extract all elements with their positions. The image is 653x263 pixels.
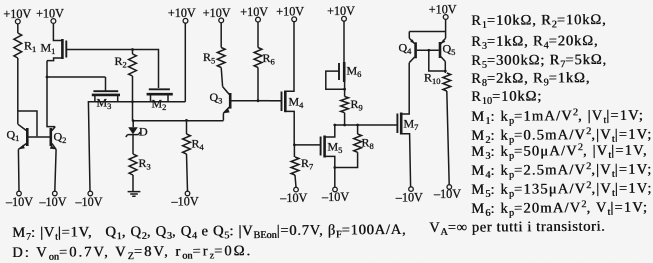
supply +10V terminal 4 (219, 18, 224, 23)
transistor Q5 (pnp, diode-connected, mirrored) (439, 42, 442, 58)
supply +10V terminal 3 (183, 18, 188, 23)
wire R1 to Q1 collector (17, 58, 19, 124)
resistor R1 (14, 33, 22, 58)
node Q4/Q5 base tie (427, 49, 430, 52)
wire +10V to M1 drain (53, 24, 62, 41)
supply -10V terminal 8 (447, 185, 452, 190)
wire Q3 emitter down (222, 113, 224, 120)
svg-text:–10V: –10V (5, 195, 33, 209)
wire R9 leads (344, 82, 346, 125)
supply +10V terminal 1 (15, 19, 20, 24)
wire M1 gate to R2 top and M2 gate (66, 50, 158, 89)
supply -10V terminal 4 (185, 191, 190, 196)
wire R7 top (293, 145, 295, 157)
wire R8 top lead (357, 125, 359, 134)
supply -10V terminal 2 (53, 191, 58, 196)
wire Q5 emitter stub (445, 32, 447, 39)
node R2 top (131, 48, 134, 51)
resistor R10 (443, 73, 451, 91)
resistor R9 (341, 97, 349, 113)
wire R4 top lead (186, 120, 188, 134)
wire Q5 collector (444, 62, 446, 74)
resistor R8 (354, 134, 362, 152)
wire +10V to M6 drain (343, 21, 345, 62)
supply -10V terminal 5 (294, 187, 299, 192)
wire Q4 emitter stub (408, 32, 410, 39)
supply -10V terminal 3 (88, 191, 93, 196)
resistor R6 (254, 48, 262, 68)
wire Q5 base-collector loop (429, 50, 446, 71)
diode D (zener) (132, 121, 134, 127)
svg-text:–10V: –10V (171, 195, 199, 209)
wire R6 bottom (257, 68, 259, 101)
wire M4 source to M5 gate (294, 144, 320, 146)
wire Q4/Q5 base link (417, 49, 439, 51)
node R6 / base wire (257, 99, 260, 102)
transistor M6 (mosfet, diode-connected) (343, 62, 346, 82)
svg-text:+10V: +10V (327, 4, 355, 18)
node M4 source / R7 / M5 gate (293, 144, 296, 147)
supply +10V terminal 2 (51, 19, 56, 24)
ground (arrow style) under R3 (128, 192, 141, 197)
resistor R5 (217, 48, 225, 68)
wire M3 source to -10V (88, 102, 95, 192)
supply +10V terminal 8 (443, 15, 448, 20)
svg-text:+10V: +10V (240, 5, 268, 19)
node M3 gate tap (46, 76, 49, 79)
wire Q1 emitter to -10V (17, 149, 20, 191)
transistor M2 (mosfet, horizontal, gate up) (149, 88, 170, 90)
wire R2 bottom (132, 76, 134, 121)
transistor M5 (mosfet, gate left) (320, 137, 322, 156)
node R8 top (356, 124, 359, 127)
transistor M7 (mosfet, gate left) (396, 114, 398, 134)
wire M1 source to M3 gate (47, 76, 106, 78)
wire +10V to R6 (257, 22, 259, 47)
transistor Q2 (npn) (49, 128, 52, 146)
node M5 source (333, 166, 336, 169)
wire R4 to -10V (187, 154, 188, 191)
wire M5 source bus to R8 bottom (335, 152, 358, 167)
svg-text:–10V: –10V (433, 187, 461, 201)
wire R2 top lead (132, 50, 134, 55)
supply +10V terminal 7 (342, 16, 347, 21)
wire Q1 collector-base loop (18, 111, 37, 136)
wire source bus (M3/R2/M2) (95, 101, 185, 103)
resistor R3 (129, 154, 137, 175)
node R9 bottom (343, 124, 346, 127)
wire R10 to -10V (447, 91, 449, 185)
svg-text:–10V: –10V (38, 195, 66, 209)
resistor R4 (183, 134, 191, 154)
wire M5 source to -10V (334, 168, 336, 188)
transistor M1 (mosfet, mirrored: gate right) (61, 39, 64, 59)
node R4 top (185, 119, 188, 122)
transistor Q1 (npn, diode-connected) (26, 128, 29, 146)
supply -10V terminal 1 (17, 191, 22, 196)
svg-text:+10V: +10V (36, 6, 64, 20)
wire R7 to -10V (295, 175, 296, 187)
wire mid bus to M7 gate (335, 124, 397, 126)
resistor R2 (129, 54, 137, 76)
svg-text:–10V: –10V (395, 191, 423, 205)
transistor Q4 (pnp) (414, 42, 417, 58)
wire Q1-Q2 base link (28, 136, 49, 138)
resistor R7 (291, 157, 299, 175)
supply -10V terminal 6 (333, 187, 338, 192)
wire R5 to Q3 collector (221, 68, 222, 87)
wire +10V to top-right rail (409, 19, 445, 31)
supply +10V terminal 6 (292, 17, 297, 22)
svg-text:D: D (139, 125, 148, 139)
transistor M3 (mosfet, horizontal, gate up) (93, 90, 118, 92)
wire Q2 emitter to -10V (55, 149, 56, 191)
transistor Q3 (npn, mirrored) (229, 93, 232, 109)
svg-text:+10V: +10V (276, 5, 304, 19)
svg-text:+10V: +10V (168, 6, 196, 20)
svg-text:+10V: +10V (429, 2, 457, 16)
wire Q3 base to R6/M4 (231, 100, 281, 102)
wire Q3 emitter bus (133, 120, 223, 122)
supply -10V terminal 7 (409, 187, 414, 192)
svg-text:+10V: +10V (203, 6, 231, 20)
svg-text:–10V: –10V (279, 191, 307, 205)
wire M2 right lead to +10V rail (184, 23, 186, 102)
svg-text:–10V: –10V (321, 190, 349, 204)
transistor M4 (mosfet, gate left) (281, 92, 283, 112)
wire R3 to ground arrow (132, 175, 134, 191)
node M5 drain (333, 124, 336, 127)
svg-text:+10V: +10V (3, 7, 31, 21)
node R10 top (444, 70, 447, 73)
node D top (132, 119, 135, 122)
wire +10V to R5 (220, 23, 222, 48)
wire M1 source down to Q2 collector (47, 61, 55, 127)
supply +10V terminal 5 (256, 17, 261, 22)
svg-text:–10V: –10V (74, 195, 102, 209)
node M6 gate-source tie (343, 88, 346, 91)
wire +10V to R1 (17, 24, 19, 33)
wire M4 gate stub (258, 100, 270, 102)
node R2 / source bus (131, 100, 134, 103)
